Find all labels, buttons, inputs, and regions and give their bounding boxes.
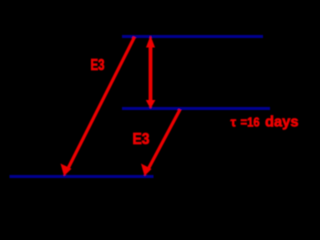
ground state level line <box>10 175 154 178</box>
svg-text:=16: =16 <box>241 116 260 130</box>
svg-text:τ: τ <box>231 116 237 130</box>
upper energy level line <box>122 35 263 38</box>
svg-text:E3: E3 <box>133 131 150 148</box>
svg-text:E3: E3 <box>91 57 105 74</box>
gamma double-headed arrow between upper and middle levels <box>146 36 156 109</box>
middle energy level line <box>122 107 270 110</box>
E3 transition arrow (middle level to ground state) <box>141 110 180 177</box>
svg-text:days: days <box>265 115 299 131</box>
E3 transition arrow (upper level to ground state) <box>61 37 135 176</box>
